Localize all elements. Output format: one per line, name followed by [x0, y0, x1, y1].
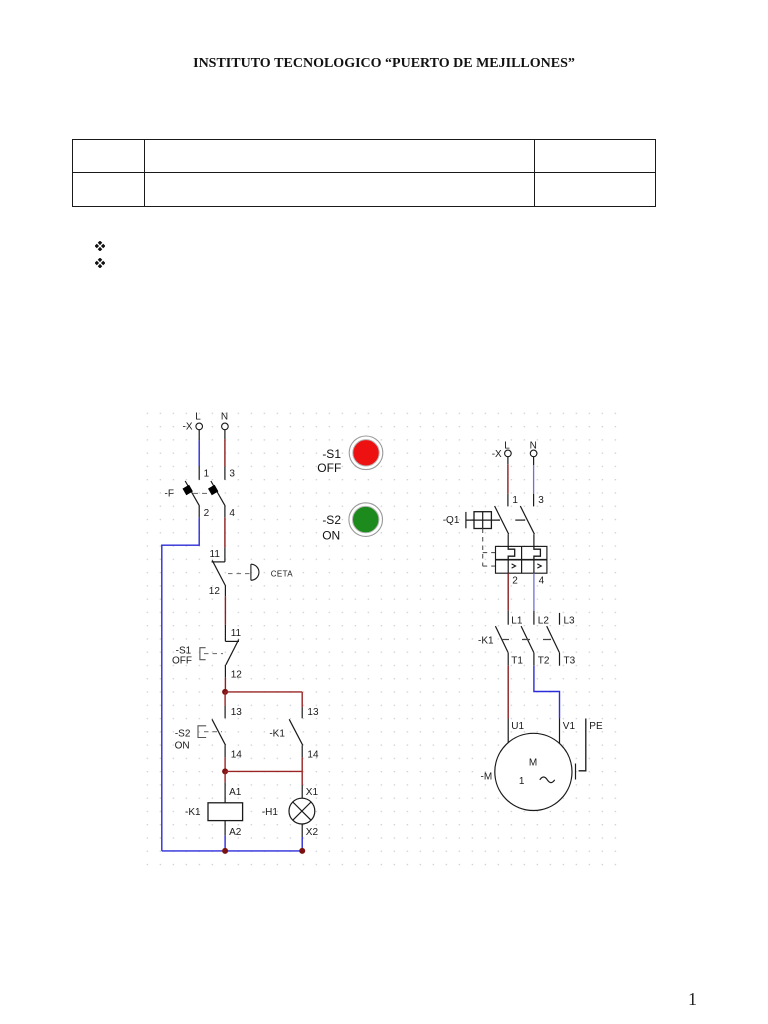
- svg-text:T3: T3: [564, 655, 576, 666]
- pin L2: [534, 611, 549, 627]
- svg-text:-S2: -S2: [175, 728, 191, 739]
- wire coil to bottom blue: [224, 836, 226, 851]
- F mechanical link: [193, 492, 211, 494]
- wire N black pin: [224, 430, 226, 440]
- breaker Q1 operator box: [466, 512, 500, 529]
- svg-text:-H1: -H1: [262, 807, 279, 818]
- wire dark red to CETA: [224, 517, 226, 547]
- svg-text:M: M: [529, 757, 537, 768]
- svg-text:L: L: [195, 412, 201, 423]
- wire N blue down: [533, 465, 535, 494]
- overload block frame: [496, 546, 547, 573]
- wire dark red to S1: [224, 596, 226, 625]
- wire pin 3 of -F: [224, 466, 226, 479]
- wire S2 branch upper: [224, 692, 226, 706]
- wire pin 1 Q1: [507, 494, 509, 507]
- CETA NC contact 11-12: [212, 547, 226, 596]
- wire pin V1: [559, 719, 561, 746]
- wire lamp to bottom blue: [301, 837, 303, 851]
- svg-text:2: 2: [204, 508, 210, 519]
- svg-text:1: 1: [204, 468, 210, 479]
- terminal -X neutral N right: [530, 441, 537, 457]
- svg-text:T1: T1: [511, 655, 523, 666]
- wire pin 4: [224, 506, 226, 518]
- svg-text:-X: -X: [492, 449, 502, 460]
- svg-text:CETA: CETA: [271, 570, 294, 579]
- bullet 2: [95, 258, 105, 268]
- node junction top: [222, 689, 228, 695]
- wire branch bottom horizontal: [225, 770, 302, 772]
- breaker Q1 pole 2 blade: [520, 506, 534, 534]
- S1 button actuator: [200, 648, 223, 660]
- contactor K1 pole 3 blade: [547, 626, 560, 653]
- wire K1 aux to node2: [301, 757, 303, 771]
- terminal -X phase L: [183, 412, 203, 433]
- wire lamp branch red: [301, 771, 303, 785]
- pin L3: [560, 613, 576, 627]
- svg-text:N: N: [221, 412, 228, 423]
- title: [0, 57, 768, 71]
- svg-text:4: 4: [229, 508, 235, 519]
- pin T2: [534, 653, 550, 667]
- pushbutton S2 green: [349, 503, 383, 537]
- svg-text:12: 12: [231, 670, 243, 681]
- pin T3: [560, 653, 576, 667]
- svg-text:14: 14: [307, 749, 319, 760]
- svg-text:X2: X2: [306, 827, 319, 838]
- label -S1 OFF: [172, 646, 192, 667]
- fuse-switch F pole 2 blade: [208, 481, 225, 506]
- fuse-switch F pole 1 blade: [183, 481, 200, 506]
- wire blue down-left jog: [162, 517, 199, 851]
- svg-text:13: 13: [231, 707, 243, 718]
- svg-text:U1: U1: [511, 721, 524, 732]
- node bottom lamp: [299, 848, 305, 854]
- svg-text:13: 13: [307, 707, 319, 718]
- svg-text:-S2: -S2: [322, 513, 341, 527]
- svg-text:ON: ON: [175, 741, 190, 752]
- svg-text:V1: V1: [563, 721, 576, 732]
- svg-text:-X: -X: [183, 422, 193, 433]
- svg-text:-K1: -K1: [478, 636, 494, 647]
- wire T1 red to motor: [507, 666, 509, 719]
- contactor coil K1: [208, 803, 243, 821]
- page number: [688, 989, 697, 1010]
- CETA actuator link: [228, 573, 250, 575]
- svg-text:L2: L2: [538, 616, 550, 627]
- breaker Q1 pole 1 blade: [495, 506, 509, 534]
- svg-text:OFF: OFF: [317, 461, 341, 475]
- svg-text:-S1: -S1: [322, 447, 341, 461]
- svg-text:L3: L3: [564, 616, 576, 627]
- PE terminal tick: [575, 764, 577, 780]
- wire branch top horizontal: [225, 691, 302, 693]
- svg-text:PE: PE: [589, 721, 603, 732]
- svg-text:1: 1: [512, 495, 518, 506]
- wire coil branch red: [224, 771, 226, 782]
- svg-text:1: 1: [519, 776, 525, 787]
- terminal -X phase L right: [492, 441, 512, 460]
- wire pin 1 of -F: [198, 466, 200, 480]
- wire N black pin right: [533, 457, 535, 465]
- contactor K1 pole 2 blade: [521, 626, 534, 653]
- svg-text:11: 11: [231, 628, 242, 639]
- svg-text:3: 3: [229, 468, 235, 479]
- svg-text:L1: L1: [511, 616, 523, 627]
- pushbutton S2 NO contact 13-14: [212, 706, 226, 758]
- wire pole2 pivot to block: [533, 534, 535, 546]
- wire pin A2: [224, 821, 226, 836]
- pin T1: [508, 653, 523, 667]
- S2 button actuator: [198, 726, 222, 738]
- svg-text:A2: A2: [229, 827, 242, 838]
- wire L red down: [507, 464, 509, 494]
- table: [72, 139, 656, 207]
- wire pin 2: [198, 506, 200, 518]
- svg-text:4: 4: [539, 576, 545, 587]
- heater element pole 2: [534, 546, 541, 559]
- pushbutton S1 NC contact 11-12: [225, 625, 239, 678]
- svg-text:3: 3: [538, 495, 544, 506]
- wire L black pin right: [507, 457, 509, 465]
- svg-text:-M: -M: [481, 771, 493, 782]
- svg-text:-Q1: -Q1: [443, 515, 460, 526]
- wire N dark red: [224, 439, 226, 466]
- trip symbol pole 2: [534, 560, 541, 574]
- wire pole1 red below block: [507, 573, 509, 611]
- wire T2 blue jog to V1: [534, 666, 560, 719]
- K1 aux NO contact 13-14: [289, 707, 303, 757]
- wire pole2 blue below block: [533, 573, 535, 611]
- svg-text:OFF: OFF: [172, 655, 192, 666]
- wire S2 to node2: [224, 757, 226, 771]
- svg-text:-K1: -K1: [185, 807, 201, 818]
- wire dark red S1 to node: [224, 678, 226, 692]
- svg-text:ON: ON: [322, 529, 340, 543]
- breaker link segment: [515, 519, 525, 521]
- svg-text:-K1: -K1: [269, 728, 285, 739]
- wire L black pin: [198, 430, 200, 441]
- terminal -X neutral N: [221, 412, 228, 430]
- node bottom coil: [222, 848, 228, 854]
- trip symbol pole 1: [508, 560, 515, 574]
- wire PE: [579, 719, 586, 771]
- wire pin 3 Q1: [533, 494, 535, 507]
- wire pin X1: [301, 785, 303, 798]
- svg-text:11: 11: [210, 549, 221, 560]
- wire pin X2: [301, 824, 303, 837]
- svg-text:T2: T2: [538, 655, 550, 666]
- heater element pole 1: [508, 546, 515, 559]
- bullet 1: [95, 241, 105, 251]
- CETA actuator symbol: [251, 564, 259, 580]
- svg-text:X1: X1: [306, 787, 319, 798]
- svg-text:2: 2: [512, 576, 518, 587]
- pin L1: [508, 611, 523, 627]
- svg-text:14: 14: [231, 749, 243, 760]
- svg-text:12: 12: [209, 586, 221, 597]
- pushbutton S1 red: [349, 436, 383, 470]
- node junction 2: [222, 768, 228, 774]
- motor M: [495, 733, 572, 810]
- label -S1 OFF button: [317, 447, 341, 475]
- label -S2 ON button: [322, 513, 341, 543]
- lamp H1: [289, 798, 315, 824]
- K1 aux branch right vertical upper: [301, 692, 303, 707]
- svg-text:A1: A1: [229, 787, 242, 798]
- contactor K1 pole 1 blade: [495, 626, 508, 653]
- wire pin U1: [507, 719, 509, 744]
- wire pole1 pivot to block: [507, 534, 509, 546]
- wire pin A1: [224, 782, 226, 802]
- schematic canvas: [140, 400, 660, 880]
- wire L blue: [198, 440, 200, 466]
- wire bottom return blue: [162, 850, 302, 852]
- K1 mechanical link dashed: [501, 639, 557, 641]
- label -S2 ON: [175, 728, 191, 751]
- Q1 trip linkage dashed: [483, 529, 496, 567]
- svg-text:-F: -F: [165, 488, 174, 499]
